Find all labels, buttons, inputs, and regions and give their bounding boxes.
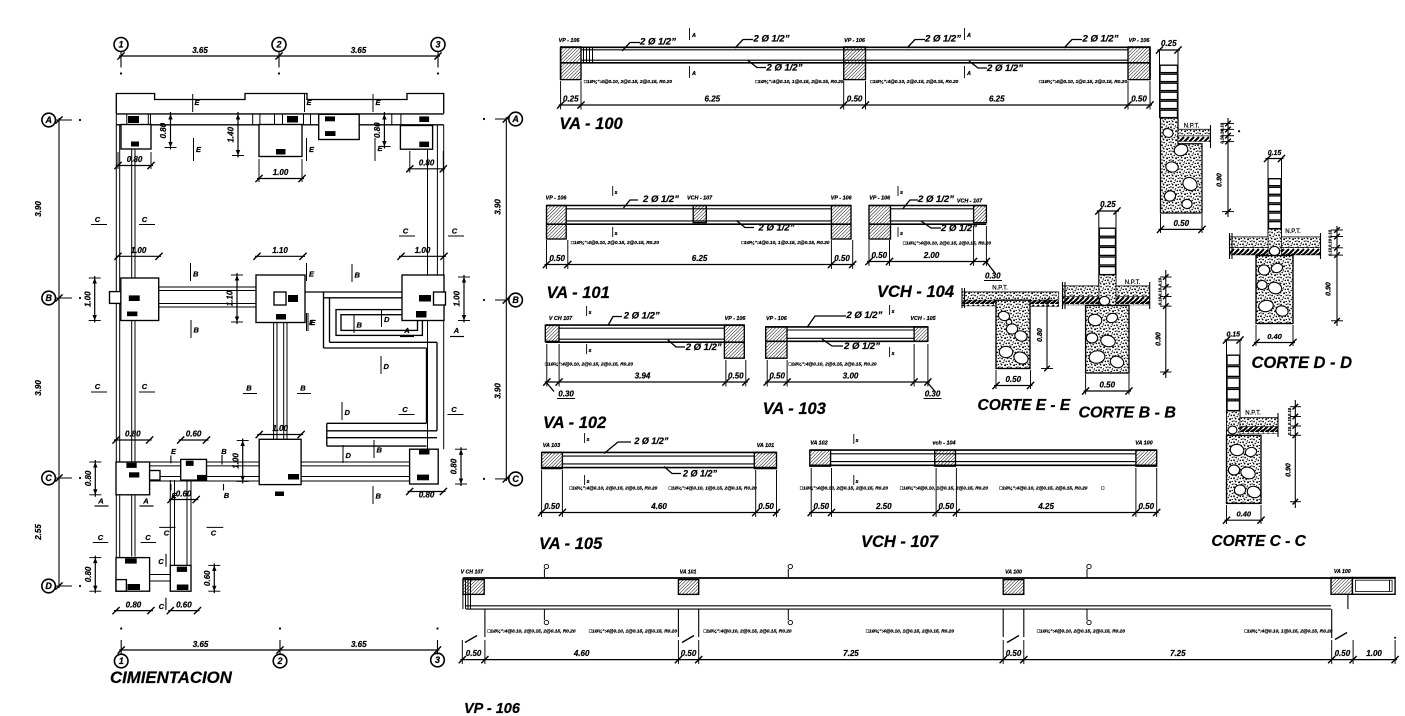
column black below C2	[275, 492, 284, 497]
svg-text:0.10: 0.10	[1328, 247, 1333, 256]
svg-text:2: 2	[275, 40, 281, 50]
section mark E right of B2 top	[306, 263, 308, 281]
svg-text:3.90: 3.90	[494, 383, 503, 399]
section mark A pair on VA-100 span2	[964, 28, 966, 40]
svg-text:C: C	[145, 533, 151, 542]
dim 1.00 vertical right of B3	[463, 275, 465, 323]
svg-text:0.50: 0.50	[1173, 219, 1189, 228]
svg-text:B: B	[45, 293, 52, 303]
beam VA-103 outline	[766, 326, 928, 328]
svg-text:4.25: 4.25	[1037, 502, 1054, 511]
svg-text:□1Ø¼":4@0.10, 2@0.15, 2@0.15,: □1Ø¼":4@0.10, 2@0.15, 2@0.15, R0.20	[584, 79, 672, 85]
svg-text:0.50: 0.50	[834, 254, 850, 263]
CORTE D-D right dim stack	[1336, 226, 1338, 326]
column footing A1	[121, 125, 151, 150]
svg-text:□1Ø¼":4@0.10, 1@0.15, 2@0.15,: □1Ø¼":4@0.10, 1@0.15, 2@0.15, R0.20	[1244, 629, 1332, 635]
svg-text:3.65: 3.65	[351, 640, 367, 649]
svg-text:B: B	[246, 384, 252, 393]
beam VCH-107 rebar lines	[831, 453, 1136, 455]
left grid bubble D	[42, 579, 56, 593]
CORTE B-B dim 0.50 bottom	[1084, 390, 1131, 392]
svg-text:A: A	[511, 114, 519, 124]
svg-text:0.80: 0.80	[419, 491, 435, 500]
svg-text:VA 103: VA 103	[543, 443, 560, 449]
svg-text:s: s	[588, 310, 591, 316]
svg-text:1.00: 1.00	[83, 291, 92, 307]
svg-text:□1Ø¼":4@0.10, 1@0.15, 2@0.15,: □1Ø¼":4@0.10, 1@0.15, 2@0.15, R0.20	[1039, 79, 1127, 85]
svg-text:C: C	[452, 227, 458, 236]
section marks s on VA-101	[612, 186, 614, 196]
support block vch-104 middle of VCH-107	[935, 450, 956, 466]
vertical strip small C footing to D footing	[169, 480, 171, 565]
svg-text:B: B	[376, 492, 382, 501]
svg-text:C: C	[142, 382, 148, 391]
svg-text:VP - 106: VP - 106	[869, 196, 891, 202]
svg-text:3.65: 3.65	[351, 46, 367, 55]
svg-text:□: □	[1101, 487, 1104, 492]
svg-text:A: A	[691, 71, 696, 77]
svg-text:7.25: 7.25	[1170, 649, 1186, 658]
svg-text:C: C	[211, 529, 217, 538]
svg-text:V CH 107: V CH 107	[461, 570, 485, 576]
CORTE E-E footing	[996, 300, 1030, 368]
left wall footing lines	[115, 114, 117, 592]
support block VCH-107 left of VA-102	[545, 325, 559, 341]
svg-text:s: s	[614, 231, 617, 237]
svg-text:1.00: 1.00	[272, 424, 288, 433]
dimension chain VA-102 0.30/3.94/0.50	[545, 381, 748, 383]
svg-text:2 Ø 1/2”: 2 Ø 1/2”	[843, 341, 880, 352]
svg-text:VA 100: VA 100	[1135, 441, 1152, 447]
CORTE D-D dim 0.15 top	[1266, 158, 1284, 160]
column footing B3 right protrusion	[434, 292, 446, 305]
svg-text:D: D	[384, 315, 390, 324]
svg-text:0.50: 0.50	[1131, 95, 1147, 104]
svg-text:3.90: 3.90	[34, 201, 43, 217]
CORTE B-B footing	[1086, 305, 1129, 373]
svg-text:0.60: 0.60	[176, 600, 192, 609]
dimension chain VP-106	[460, 659, 1397, 661]
dim 0.80 above C1	[114, 439, 152, 441]
svg-text:0.10: 0.10	[1158, 287, 1163, 296]
stirrup spacing markers on VP-106	[544, 564, 548, 568]
svg-text:V CH 107: V CH 107	[549, 316, 573, 322]
svg-text:□1Ø¼":4@0.10, 1@0.15, 2@0.15,: □1Ø¼":4@0.10, 1@0.15, 2@0.15, R0.20	[741, 240, 829, 246]
section mark E bottom 3	[374, 138, 376, 161]
bottom grid bubble 2	[273, 654, 287, 668]
support block VP-106 right of VA-101	[831, 206, 851, 240]
section mark C-C overlined at C-D strip	[159, 526, 175, 528]
svg-text:2 Ø 1/2”: 2 Ø 1/2”	[753, 34, 790, 45]
svg-text:0.90: 0.90	[1286, 463, 1293, 477]
beam VA-101 rebar lines	[566, 208, 831, 210]
svg-text:B: B	[355, 271, 361, 280]
section mark B above strip	[190, 263, 192, 281]
column black A2 in strip	[287, 116, 298, 123]
svg-text:B: B	[224, 491, 230, 500]
svg-text:VP - 106: VP - 106	[464, 701, 521, 716]
svg-text:□1Ø¼":4@0.10, 1@0.15, 2@0.15,: □1Ø¼":4@0.10, 1@0.15, 2@0.15, R0.20	[900, 486, 988, 492]
top strip column ticks	[126, 114, 128, 125]
svg-text:1.00: 1.00	[273, 168, 289, 177]
svg-text:s: s	[586, 437, 589, 443]
section mark B inside spiral	[353, 315, 355, 333]
svg-text:□1Ø¼":4@0.10, 2@0.15, 2@0.15,: □1Ø¼":4@0.10, 2@0.15, 2@0.15, R0.20	[789, 362, 877, 368]
support block VA-103 left of VA-105	[542, 452, 563, 468]
section marks s on VCH-104	[897, 186, 899, 196]
svg-text:CIMIENTACION: CIMIENTACION	[110, 668, 233, 687]
dim 0.60 above small footing	[179, 439, 209, 441]
C row footing strip	[135, 461, 410, 463]
svg-text:C: C	[164, 529, 170, 538]
section marks s on VCH-107	[853, 434, 855, 444]
svg-text:0.10: 0.10	[1328, 238, 1333, 247]
svg-text:0.50: 0.50	[847, 95, 863, 104]
svg-text:C: C	[512, 474, 519, 484]
section column bricks at VA-100 end	[1159, 50, 1161, 118]
small footing C-D column	[181, 459, 207, 480]
column footing A2	[259, 125, 302, 157]
support block VA-102 left of VCH-107	[810, 450, 831, 466]
svg-text:0.25: 0.25	[563, 95, 579, 104]
svg-text:VA - 105: VA - 105	[539, 535, 603, 553]
svg-text:4.60: 4.60	[650, 502, 667, 511]
dim 0.80 vertical at A3	[383, 112, 385, 149]
grid2 wall footing strip B to C	[273, 323, 275, 462]
svg-text:0.80: 0.80	[450, 458, 459, 474]
CORTE C-C stone at ground	[1228, 426, 1237, 434]
CORTE B-B column bricks	[1098, 211, 1100, 305]
svg-text:3.65: 3.65	[193, 640, 209, 649]
svg-text:1: 1	[119, 656, 124, 666]
svg-text:□1Ø¼":4@0.10, 2@0.15, 2@0.15,: □1Ø¼":4@0.10, 2@0.15, 2@0.15, R0.20	[545, 362, 633, 368]
column footing C1 right protrusion	[150, 471, 160, 481]
svg-text:1.10: 1.10	[226, 290, 235, 306]
svg-text:3.90: 3.90	[494, 199, 503, 215]
svg-text:□1Ø¼":4@0.10, 2@0.15, 2@0.15,: □1Ø¼":4@0.10, 2@0.15, 2@0.15, R0.20	[800, 486, 888, 492]
bottom grid bubble 1	[114, 654, 128, 668]
beam VA-100 rebar lines	[581, 49, 1128, 51]
svg-text:A: A	[403, 326, 409, 335]
svg-text:0.50: 0.50	[728, 372, 744, 381]
svg-text:VP - 106: VP - 106	[766, 316, 788, 322]
wall spiral bottom line pairs	[327, 422, 427, 424]
column footing C3	[410, 449, 439, 484]
svg-text:0.80: 0.80	[84, 470, 93, 486]
support block VA-100 on VP-106	[1003, 580, 1024, 595]
svg-text:7.25: 7.25	[843, 649, 859, 658]
beam VP-106 soffit lines	[466, 605, 1331, 607]
section mark E top 3	[372, 94, 374, 112]
right grid bubble B	[509, 293, 523, 307]
dim 1.00 above C2	[257, 434, 303, 436]
svg-text:B: B	[357, 321, 363, 330]
grid line stubs below top bubbles	[120, 52, 122, 68]
svg-text:C: C	[142, 215, 148, 224]
svg-text:B: B	[221, 447, 227, 456]
svg-text:□1Ø¼":4@0.10, 2@0.15, 2@0.15,: □1Ø¼":4@0.10, 2@0.15, 2@0.15, R0.20	[488, 629, 576, 635]
column footing B3	[402, 275, 444, 321]
svg-text:1.10: 1.10	[272, 246, 288, 255]
section mark B above C2	[373, 440, 375, 458]
section mark B below strip	[190, 320, 192, 338]
dim 0.50 below section footing	[1159, 228, 1205, 230]
svg-text:0.10: 0.10	[1158, 277, 1163, 286]
svg-text:4.60: 4.60	[573, 649, 590, 658]
D row connector strip	[150, 574, 171, 576]
svg-text:VCH - 107: VCH - 107	[957, 199, 983, 205]
svg-text:VCH - 104: VCH - 104	[877, 283, 954, 301]
column footing D1 corner notch	[116, 580, 126, 592]
right grid bubble C	[509, 472, 523, 486]
beam VP-106 top line	[463, 577, 1395, 579]
svg-text:D: D	[346, 451, 352, 460]
svg-text:0.60: 0.60	[176, 489, 192, 498]
section mark B at C row bottom	[223, 484, 225, 490]
column footing C2	[259, 439, 301, 484]
svg-text:VA 102: VA 102	[810, 441, 827, 447]
support block VP-106 middle of VA-100	[844, 47, 866, 80]
dim 1.00 vertical at C row	[242, 439, 244, 484]
beam VA-100 anchorage ticks	[583, 47, 585, 63]
svg-text:0.30: 0.30	[985, 272, 1001, 281]
grid bubble 1 top	[114, 38, 128, 52]
svg-text:0.10: 0.10	[1287, 416, 1292, 425]
svg-text:A: A	[966, 71, 971, 77]
svg-text:C: C	[402, 405, 408, 414]
svg-text:0.60: 0.60	[203, 570, 212, 586]
column footing D2	[170, 565, 191, 591]
support block VP-106 left of VCH-104	[869, 206, 891, 240]
svg-text:B: B	[194, 326, 200, 335]
top dimension line 3.65 / 3.65	[119, 55, 440, 57]
CORTE C-C dim 0.40 bottom	[1225, 519, 1264, 521]
section mark D middle	[380, 356, 382, 374]
CORTE C-C right dim stack	[1294, 400, 1296, 508]
svg-text:2.50: 2.50	[875, 502, 892, 511]
svg-text:□1Ø¼":4@0.10, 2@0.15, 2@0.15,: □1Ø¼":4@0.10, 2@0.15, 2@0.15, R0.20	[870, 79, 958, 85]
svg-text:0.50: 0.50	[871, 251, 887, 260]
svg-text:s: s	[900, 231, 903, 237]
beam VP-106 support stubs	[484, 609, 486, 637]
svg-text:0.50: 0.50	[1005, 375, 1021, 384]
dim 0.80 below C3	[408, 491, 446, 493]
section marks s on VA-102	[586, 306, 588, 316]
svg-text:2 Ø 1/2”: 2 Ø 1/2”	[766, 63, 803, 74]
svg-text:2 Ø 1/2”: 2 Ø 1/2”	[845, 310, 882, 321]
section marks s on VA-105	[584, 433, 586, 443]
support block VA-100 right of VCH-107	[1136, 450, 1157, 466]
svg-text:C: C	[45, 473, 52, 483]
svg-text:VP - 106: VP - 106	[546, 196, 568, 202]
svg-text:C: C	[159, 602, 165, 611]
svg-text:VA - 102: VA - 102	[543, 414, 606, 432]
svg-text:0.10: 0.10	[1287, 426, 1292, 435]
dim 0.80 below A1	[116, 165, 153, 167]
svg-text:3.90: 3.90	[34, 380, 43, 396]
break marks on VP-106 stubs	[465, 636, 477, 643]
svg-text:CORTE C - C: CORTE C - C	[1211, 533, 1306, 550]
svg-text:□1Ø¼":4@0.10, 2@0.15, 2@0.15,: □1Ø¼":4@0.10, 2@0.15, 2@0.15, R0.20	[571, 240, 659, 246]
svg-text:N.P.T.: N.P.T.	[1245, 411, 1261, 417]
svg-text:1.00: 1.00	[1366, 649, 1382, 658]
support block VP-106 left of VA-101	[547, 206, 567, 240]
dim 0.80 vertical left of C1	[94, 460, 96, 497]
svg-text:vch - 104: vch - 104	[932, 441, 955, 447]
svg-text:C: C	[98, 533, 104, 542]
svg-text:0.30: 0.30	[558, 390, 574, 399]
svg-text:□1Ø¼":4@0.10, 2@0.15, 2@0.15,: □1Ø¼":4@0.10, 2@0.15, 2@0.15, R0.20	[569, 486, 657, 492]
svg-text:1.40: 1.40	[227, 126, 236, 142]
svg-text:VP - 106: VP - 106	[725, 316, 747, 322]
svg-text:0.90: 0.90	[1156, 332, 1163, 346]
svg-text:s: s	[855, 479, 858, 485]
svg-text:VP - 106: VP - 106	[844, 38, 866, 44]
CORTE D-D stone at ground	[1269, 246, 1279, 255]
svg-text:0.80: 0.80	[127, 155, 143, 164]
dim 1.00 above B1	[116, 255, 161, 257]
dim 0.60 below small footing	[169, 499, 198, 501]
CORTE B-B stone at ground	[1099, 296, 1109, 305]
section mark E at C row bottom	[170, 484, 172, 490]
svg-text:VA - 103: VA - 103	[763, 400, 826, 418]
dimension chain VA-103 0.50/3.00/0.30	[765, 381, 930, 383]
CORTE D-D footing	[1256, 256, 1293, 324]
svg-text:3: 3	[435, 655, 440, 665]
svg-text:N.P.T.: N.P.T.	[1285, 229, 1301, 235]
svg-text:N.P.T.: N.P.T.	[1125, 280, 1141, 286]
section mark C below D1	[165, 598, 167, 610]
support block VCH-105 right of VA-103	[914, 327, 928, 341]
svg-text:C: C	[158, 557, 164, 566]
svg-text:D: D	[384, 362, 390, 371]
CORTE E-E dim 0.80 right	[1046, 300, 1048, 368]
svg-text:C: C	[403, 227, 409, 236]
top wall stepped outline	[116, 94, 443, 114]
svg-text:1.00: 1.00	[131, 246, 147, 255]
section mark E lower left of B2	[307, 313, 309, 331]
column footing B1	[121, 278, 159, 321]
section mark E bottom 2	[306, 138, 308, 161]
CORTE B-B right dim stack	[1165, 270, 1167, 378]
support block VA-100 right on VP-106	[1331, 578, 1352, 595]
svg-text:1.00: 1.00	[453, 290, 462, 306]
right grid bubble A	[509, 112, 523, 126]
column black A3 in strip	[419, 116, 429, 122]
dimension chain VA-100 0.25/6.25/0.50/6.25/0.50	[559, 104, 1152, 106]
support block VP-106 left of VA-103	[766, 327, 787, 358]
section mark B left of B3	[351, 264, 353, 282]
svg-text:2 Ø 1/2”: 2 Ø 1/2”	[685, 342, 722, 353]
dim 1.10 above B2	[255, 255, 305, 257]
svg-text:N.P.T.: N.P.T.	[992, 286, 1008, 292]
support block VP-106 right of VA-102	[724, 325, 744, 358]
beam VP-106 right cantilever end	[1352, 578, 1395, 595]
svg-text:2 Ø 1/2”: 2 Ø 1/2”	[682, 469, 718, 479]
svg-text:A: A	[97, 497, 103, 506]
beam VA-100 outline	[561, 46, 1150, 48]
CORTE C-C dim 0.15 top	[1225, 339, 1243, 341]
svg-text:3.00: 3.00	[843, 372, 859, 381]
left vertical dimension line 3.90/3.90/2.55	[58, 118, 60, 588]
svg-text:VA 100: VA 100	[1334, 569, 1351, 575]
svg-text:VCH - 105: VCH - 105	[910, 316, 936, 322]
svg-text:0.80: 0.80	[84, 566, 93, 582]
bottom grid bubble 3	[431, 653, 445, 667]
footing of section at VA-100 end	[1161, 118, 1203, 213]
dim 0.80 vertical at A1	[170, 112, 172, 150]
svg-text:0.25: 0.25	[1161, 39, 1177, 48]
svg-text:N.P.T.: N.P.T.	[1184, 124, 1200, 130]
svg-text:0.50: 0.50	[769, 372, 785, 381]
svg-text:1.00: 1.00	[231, 453, 240, 469]
svg-text:A: A	[966, 33, 971, 39]
CORTE D-D column bricks	[1267, 159, 1269, 256]
dim 0.25 top of section	[1158, 49, 1181, 51]
right wall footing lines	[443, 125, 445, 449]
svg-text:0.10: 0.10	[1328, 229, 1333, 238]
column footing A3	[400, 126, 432, 150]
svg-text:0.50: 0.50	[758, 502, 774, 511]
beam VA-105 outline	[542, 451, 777, 453]
column footing A2-3 middle	[319, 114, 360, 139]
svg-text:CORTE B - B: CORTE B - B	[1079, 405, 1176, 422]
column black A1 in strip	[128, 116, 139, 123]
svg-text:2 Ø 1/2”: 2 Ø 1/2”	[639, 37, 676, 48]
svg-text:CORTE E - E: CORTE E - E	[978, 397, 1071, 414]
section mark D below B3 strip	[381, 309, 383, 327]
section mark E top 1	[192, 94, 194, 112]
dimension chain VCH-104 0.50/2.00 and 0.30 leader	[867, 261, 988, 263]
section mark D lower	[341, 402, 343, 420]
section mark D at C-D strip	[342, 445, 344, 463]
CORTE B-B dim 0.25 top	[1097, 210, 1119, 212]
svg-text:6.25: 6.25	[989, 95, 1005, 104]
CORTE C-C footing	[1227, 435, 1262, 503]
left grid bubble A	[42, 113, 56, 127]
svg-text:2 Ø 1/2”: 2 Ø 1/2”	[1082, 34, 1119, 45]
svg-text:□1Ø¼":4@0.10, 1@0.15, 2@0.15,: □1Ø¼":4@0.10, 1@0.15, 2@0.15, R0.20	[866, 629, 954, 635]
svg-text:0.80: 0.80	[419, 159, 435, 168]
svg-text:s: s	[891, 309, 894, 315]
dim 1.10 vertical between B1-B2	[236, 273, 238, 324]
svg-text:2 Ø 1/2”: 2 Ø 1/2”	[633, 436, 669, 446]
bottom dimension line 3.65 / 3.65	[119, 649, 439, 651]
dim 1.00 below A2	[257, 178, 304, 180]
CORTE E-E dim 0.50 bottom	[994, 385, 1033, 387]
svg-text:□1Ø¼":4@0.10, 2@0.15, 2@0.15,: □1Ø¼":4@0.10, 2@0.15, 2@0.15, R0.20	[704, 629, 792, 635]
dimension chain VA-105 0.50/4.60/0.50	[540, 512, 779, 514]
CORTE D-D dim 0.40 bottom	[1254, 342, 1295, 344]
svg-text:0.50: 0.50	[466, 649, 482, 658]
section marks s on VA-103	[889, 305, 891, 315]
svg-text:2 Ø 1/2”: 2 Ø 1/2”	[758, 223, 795, 234]
support block right of VCH-104	[974, 206, 987, 223]
svg-text:0.50: 0.50	[681, 649, 697, 658]
svg-text:2.55: 2.55	[34, 524, 43, 541]
svg-text:0.80: 0.80	[159, 122, 168, 138]
B row footing strip left	[159, 286, 256, 288]
svg-text:2 Ø 1/2”: 2 Ø 1/2”	[986, 63, 1023, 74]
svg-text:2 Ø 1/2”: 2 Ø 1/2”	[917, 194, 954, 205]
beam VP-106 left end anchorage	[462, 578, 464, 609]
beam VA-102 outline	[545, 324, 744, 326]
svg-text:□1Ø¼":4@0.10, 1@0.15, 2@0.15,: □1Ø¼":4@0.10, 1@0.15, 2@0.15, R0.20	[669, 486, 757, 492]
svg-text:VP - 106: VP - 106	[559, 38, 581, 44]
support block VP-106 right of VA-100	[1128, 47, 1150, 80]
svg-text:0.50: 0.50	[544, 502, 560, 511]
svg-text:B: B	[512, 295, 519, 305]
